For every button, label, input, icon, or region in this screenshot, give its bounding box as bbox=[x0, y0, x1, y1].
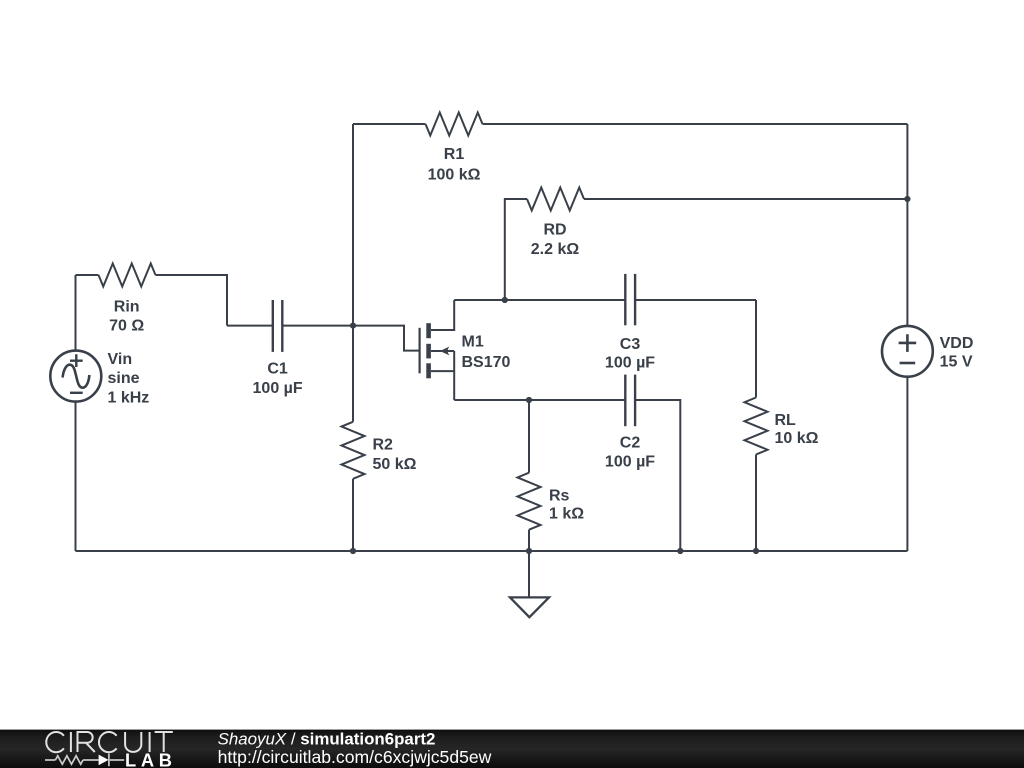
svg-text:RD: RD bbox=[543, 221, 566, 238]
svg-text:http://circuitlab.com/c6xcjwjc: http://circuitlab.com/c6xcjwjc5d5ew bbox=[218, 747, 492, 767]
svg-text:R2: R2 bbox=[373, 437, 394, 454]
svg-text:C3: C3 bbox=[620, 336, 641, 353]
svg-text:Rin: Rin bbox=[114, 299, 140, 316]
svg-text:1 kHz: 1 kHz bbox=[108, 389, 150, 406]
svg-text:C2: C2 bbox=[620, 435, 641, 452]
svg-text:R1: R1 bbox=[444, 146, 465, 163]
svg-text:100 µF: 100 µF bbox=[605, 355, 655, 372]
svg-text:BS170: BS170 bbox=[462, 354, 511, 371]
svg-text:M1: M1 bbox=[462, 333, 484, 350]
svg-text:RL: RL bbox=[775, 412, 797, 429]
svg-text:Rs: Rs bbox=[549, 487, 570, 504]
svg-text:50 kΩ: 50 kΩ bbox=[373, 456, 417, 473]
svg-text:15 V: 15 V bbox=[940, 354, 973, 371]
svg-text:C1: C1 bbox=[267, 361, 288, 378]
svg-text:2.2 kΩ: 2.2 kΩ bbox=[531, 241, 580, 258]
svg-text:VDD: VDD bbox=[940, 335, 974, 352]
svg-text:10 kΩ: 10 kΩ bbox=[775, 430, 819, 447]
svg-text:LAB: LAB bbox=[125, 750, 177, 768]
svg-text:sine: sine bbox=[108, 370, 140, 387]
svg-text:Vin: Vin bbox=[108, 351, 133, 368]
svg-text:100 µF: 100 µF bbox=[605, 453, 655, 470]
svg-text:70 Ω: 70 Ω bbox=[109, 317, 144, 334]
svg-text:1 kΩ: 1 kΩ bbox=[549, 506, 584, 523]
svg-text:100 µF: 100 µF bbox=[253, 380, 303, 397]
svg-text:100 kΩ: 100 kΩ bbox=[428, 167, 481, 184]
